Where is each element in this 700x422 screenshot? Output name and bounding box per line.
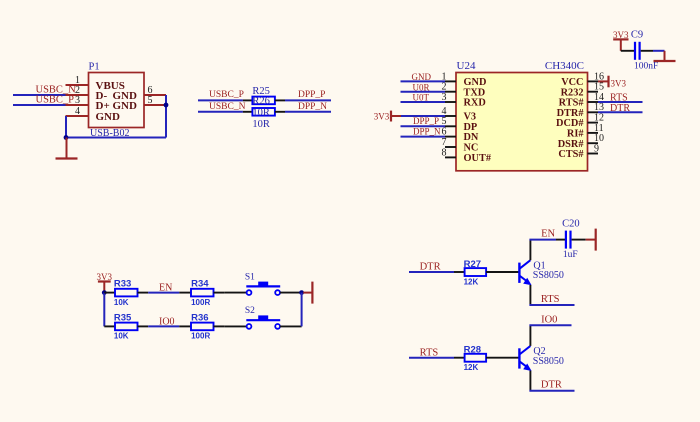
designator C20 [562,219,580,230]
svg-text:10R: 10R [252,107,270,118]
designator P1 [89,62,100,73]
value USB-B02 [90,128,129,139]
value 12K of R27 [464,278,479,287]
net label DTR [610,103,630,114]
svg-text:3V3: 3V3 [611,79,627,89]
value SS8050 [533,356,564,367]
wire R25 to DPP_P [285,99,331,101]
wire DPP_N to U24 pin 6 [401,136,446,138]
U24 pin 7 NC [442,137,479,154]
wire U0R to U24 pin 2 [401,91,446,93]
value 12K of R28 [464,363,479,372]
svg-text:U0R: U0R [413,82,430,92]
U24 pin 8 OUT# [442,147,492,164]
svg-text:RTS: RTS [541,294,560,305]
wire net IO0 [148,325,179,327]
designator R34 [191,279,209,290]
U24 pin 2 TXD [442,82,486,99]
designator Q1 [533,260,545,271]
wire DPP_P to U24 pin 5 [401,125,446,127]
net label EN [541,229,555,240]
power port 3V3 above R33 [97,272,113,292]
transistor Q1 SS8050 [519,240,531,305]
wire R27 to Q1 base [486,271,519,273]
wire GND to U24 pin 1 [401,80,446,82]
svg-text:USBC_P: USBC_P [36,94,75,105]
wire Q2 emitter to DTR [529,390,574,392]
junction P1 pin 5 [164,103,169,108]
resistor R28 [454,354,486,362]
svg-text:DN: DN [464,132,479,143]
wire S1 to S2 vertical [301,293,303,327]
svg-text:CTS#: CTS# [558,149,584,160]
ground symbol below P1 [56,138,78,159]
value 10K [114,298,129,307]
svg-text:R33: R33 [114,279,131,290]
wire Q2 collector to IO0 [529,324,571,326]
ground symbol right of C9 [654,51,676,61]
P1 pin 2 D- [66,85,108,102]
net label DPP_P [413,116,439,126]
svg-text:10R: 10R [252,119,270,130]
svg-text:10K: 10K [114,332,129,341]
designator R36 [191,312,208,323]
resistor R35 [104,323,148,331]
designator U24 [457,60,476,72]
U24 pin 11 RI# [567,123,604,140]
ground symbol right of C20 [586,229,596,251]
wire P1 pins 5-6 down [165,95,167,138]
svg-text:R25: R25 [252,86,270,97]
resistor R25 [243,97,285,105]
transistor Q2 SS8050 [519,325,531,390]
net label RTS [420,347,439,358]
wire net RTS to R28 [409,357,454,359]
svg-text:5: 5 [148,95,153,106]
svg-text:1uF: 1uF [563,250,578,260]
wire 3V3 to U24 pin 4 [401,115,445,117]
designator R25 [252,86,270,97]
value 100R [191,298,210,307]
net label DPP_P [298,90,325,100]
svg-text:S2: S2 [245,306,255,316]
svg-text:GND: GND [412,72,432,82]
P1 pin 4 GND [66,106,121,123]
svg-text:IO0: IO0 [159,316,175,327]
resistor R27 [454,268,486,276]
net label DPP_N [298,102,327,112]
power port 3V3 at U24 pin 16 [598,76,626,89]
net label U0R [413,82,430,92]
value 1uF [563,250,578,260]
svg-text:IO0: IO0 [541,314,557,325]
svg-text:R26: R26 [252,96,270,107]
resistor R36 [179,323,224,331]
net label RTS [541,294,560,305]
svg-text:3V3: 3V3 [374,111,390,121]
net label RTS [610,93,628,104]
P1 pin 3 D+ [66,95,110,112]
wire U24 pin 13 to DTR [598,111,643,113]
svg-text:3: 3 [75,95,80,106]
P1 pin 5 GND [113,95,167,112]
svg-text:SS8050: SS8050 [533,356,564,367]
svg-text:R27: R27 [464,259,481,270]
wire R26 to DPP_N [285,111,331,113]
junction 3V3 rail [102,290,107,295]
wire P1 pin 4 down [65,116,67,138]
designator R26 [252,96,270,107]
value 10R of R25 [252,107,270,118]
svg-text:EN: EN [159,283,172,294]
svg-text:100R: 100R [191,298,210,307]
net label EN [159,283,172,294]
capacitor C9 [621,42,653,60]
svg-text:4: 4 [75,106,80,117]
resistor R26 [243,108,285,116]
net label IO0 [159,316,175,327]
svg-text:USBC_P: USBC_P [209,90,244,100]
net label USBC_P [36,94,75,105]
net label GND [412,72,432,82]
svg-text:RXD: RXD [464,98,486,109]
net label DPP_N [413,126,441,136]
designator S1 [245,272,255,282]
net label USBC_P [209,90,244,100]
value 10R of R26 [252,119,270,130]
svg-text:R35: R35 [114,312,132,323]
svg-text:12K: 12K [464,278,479,287]
svg-text:S1: S1 [245,272,255,282]
U24 pin 4 V3 [442,106,477,123]
value 10K [114,332,129,341]
U24 pin 13 DTR# [557,102,604,119]
U24 pin 6 DN [442,127,479,144]
wire net USBC_P to P1 pin 3 [13,104,66,106]
wire C9 to ground [653,50,665,52]
wire P1 ground rail [65,137,166,139]
designator R28 [464,345,481,356]
designator R27 [464,259,481,270]
svg-text:R34: R34 [191,279,209,290]
net label DTR [420,262,441,273]
resistor R33 [104,289,148,297]
U24 pin 9 CTS# [558,143,599,160]
svg-text:R36: R36 [191,312,208,323]
wire U0T to U24 pin 3 [401,101,446,103]
net label DTR [541,380,562,391]
ground symbol right of S1 [303,282,312,304]
svg-text:NC: NC [464,143,479,154]
P1 pin 1 VBUS [66,75,125,92]
wire U24 pin 14 to RTS [598,101,643,103]
wire R28 to Q2 base [486,357,519,359]
net label IO0 [541,314,557,325]
svg-text:DTR: DTR [610,103,630,114]
power port 3V3 at U24 pin 4 [374,111,401,122]
wire net EN [148,292,179,294]
designator Q2 [533,346,545,357]
svg-text:DTR: DTR [541,380,562,391]
svg-text:100R: 100R [191,332,210,341]
svg-text:GND: GND [96,111,121,123]
net label USBC_N [209,102,246,112]
svg-text:P1: P1 [89,62,100,73]
capacitor C20 [556,231,586,249]
wire USBC_N to R26 [198,111,243,113]
svg-text:7: 7 [442,137,447,148]
svg-text:DPP_P: DPP_P [413,116,439,126]
wire USBC_P to R25 [198,99,243,101]
svg-text:CH340C: CH340C [545,60,584,72]
switch S1 [225,282,302,295]
svg-text:R28: R28 [464,345,481,356]
svg-text:DPP_P: DPP_P [298,90,325,100]
wire Q1 collector to EN [529,239,556,241]
svg-text:EN: EN [541,229,555,240]
U24 pin 15 R232 [561,82,604,99]
switch S2 [225,315,302,328]
svg-text:GND: GND [113,100,138,112]
net label USBC_N [36,84,77,95]
svg-text:U0T: U0T [413,93,430,103]
designator C9 [631,30,643,41]
P1 pin 6 GND [113,85,167,102]
wire Q1 emitter to RTS [529,304,574,306]
designator R35 [114,312,132,323]
svg-text:12K: 12K [464,363,479,372]
svg-text:U24: U24 [457,60,476,72]
designator S2 [245,306,255,316]
junction ground rail [64,135,69,140]
svg-text:10K: 10K [114,298,129,307]
U24 pin 5 DP [442,116,478,133]
net label U0T [413,93,430,103]
wire net USBC_N to P1 pin 2 [13,94,66,96]
U24 pin 14 RTS# [559,92,604,109]
svg-text:100nF: 100nF [634,62,658,72]
power port 3V3 above C9 [613,30,629,51]
svg-text:RTS: RTS [420,347,439,358]
value SS8050 [533,270,564,281]
U24 pin 12 DCD# [556,113,604,130]
U24 pin 1 GND [442,71,487,88]
svg-text:DTR: DTR [420,262,441,273]
svg-text:C20: C20 [562,219,580,230]
IC U24 CH340C body [456,73,588,171]
U24 pin 3 RXD [442,92,486,109]
U24 pin 10 DSR# [558,133,604,150]
value 100nF [634,62,658,72]
designator R33 [114,279,131,290]
svg-text:OUT#: OUT# [464,153,492,164]
part name CH340C [545,60,584,72]
connector P1 body [89,73,145,128]
wire net DTR to R27 [409,271,454,273]
svg-text:8: 8 [442,147,447,158]
svg-text:9: 9 [594,143,599,154]
value 100R [191,332,210,341]
junction switches to ground [299,290,304,295]
svg-text:C9: C9 [631,30,643,41]
svg-text:DPP_N: DPP_N [413,126,441,136]
U24 pin 16 VCC [561,71,604,88]
svg-text:USBC_N: USBC_N [209,102,246,112]
svg-text:SS8050: SS8050 [533,270,564,281]
wire 3V3 rail down [103,293,105,327]
svg-text:DPP_N: DPP_N [298,102,327,112]
resistor R34 [179,289,224,297]
